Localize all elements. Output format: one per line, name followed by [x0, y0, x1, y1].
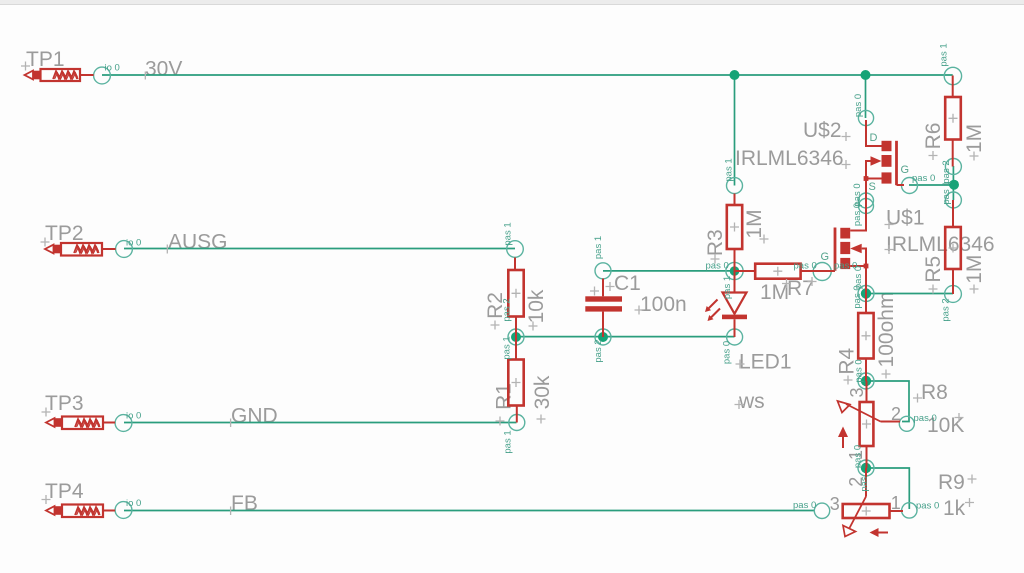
- pin text pas0 R9 pin3: [793, 500, 816, 511]
- pin 2 of R8: [891, 404, 901, 424]
- svg-text:3: 3: [847, 387, 867, 397]
- pin circle U$2 drain: [858, 110, 873, 125]
- pin text pas0 U$2 source rotated: [852, 183, 863, 206]
- junction U$2 gate / R6 / R5: [949, 180, 959, 190]
- origin cross R5 name: [929, 285, 938, 294]
- svg-text:30k: 30k: [531, 375, 554, 409]
- label R6 rotated: [922, 123, 945, 150]
- origin cross TP2: [41, 238, 50, 247]
- value 100n: [640, 293, 687, 316]
- pin circle U$1 source: [858, 286, 874, 302]
- pin label D U$2: [870, 132, 878, 144]
- value IRLML6346 (U$1): [886, 233, 995, 256]
- svg-text:U$1: U$1: [886, 207, 925, 230]
- origin cross C1 value: [635, 306, 644, 315]
- svg-text:AUSG: AUSG: [168, 231, 228, 254]
- svg-text:U$2: U$2: [803, 119, 842, 142]
- svg-text:io 0: io 0: [126, 411, 141, 422]
- pin text pas0 R8 pin2: [914, 413, 937, 424]
- pin circle TP1: [94, 67, 111, 84]
- origin cross LED1 name: [736, 360, 745, 369]
- pin text pas0 U$2 gate: [912, 173, 935, 184]
- origin cross C1: [590, 287, 599, 296]
- origin cross R3 body: [730, 223, 739, 232]
- wire net GND horizontal: [124, 422, 517, 424]
- pin text pas1 R2 top rotated: [503, 222, 514, 245]
- pin circle C1 pin2 bottom: [595, 329, 611, 345]
- resistor R6 1M: [945, 76, 961, 167]
- resistor R7 1M horizontal: [735, 264, 836, 279]
- origin tick AUSG: [166, 245, 168, 254]
- wire node R3/R7/LED/C1 horizontal: [603, 270, 735, 272]
- value 100ohm rotated: [875, 292, 898, 368]
- svg-text:ws: ws: [738, 390, 765, 413]
- svg-text:GND: GND: [231, 405, 278, 428]
- svg-text:pas 0: pas 0: [793, 500, 816, 511]
- wire net FB horizontal: [124, 510, 815, 512]
- pin text pas0 R4 bottom rotated: [854, 359, 865, 382]
- resistor R4 100ohm: [858, 294, 873, 382]
- svg-text:D: D: [870, 132, 878, 144]
- pin circle R3 pin1 top: [727, 178, 743, 194]
- pin text pas1 R5 top rotated: [941, 181, 952, 204]
- origin cross R9 body: [862, 507, 871, 516]
- svg-text:R8: R8: [921, 381, 948, 404]
- label LED1: [739, 351, 792, 374]
- svg-text:TP3: TP3: [45, 392, 84, 415]
- origin cross 1K value: [965, 498, 974, 507]
- svg-text:pas 1: pas 1: [503, 222, 514, 245]
- pin text pas1 LED anode rotated: [722, 276, 733, 299]
- pin circle TP4: [115, 502, 132, 519]
- svg-text:LED1: LED1: [739, 351, 792, 374]
- origin cross R1 body: [512, 378, 521, 387]
- origin cross C1 name: [606, 282, 615, 291]
- pin text pas2 C1 bottom rotated: [593, 339, 604, 362]
- svg-text:S: S: [869, 181, 876, 193]
- label R2 rotated: [484, 292, 507, 319]
- value 1M (R6) rotated: [963, 124, 986, 153]
- junction U$1 source / R4 / R5: [861, 288, 871, 298]
- pin text pas1 R3 top rotated: [724, 158, 735, 181]
- svg-text:pas 1: pas 1: [941, 181, 952, 204]
- wire U$1 source to R5 bottom: [866, 293, 953, 295]
- svg-text:1: 1: [891, 493, 901, 513]
- svg-text:pas 1: pas 1: [939, 43, 950, 66]
- svg-text:3: 3: [830, 494, 840, 514]
- transistor U$1 IRLML6346: [835, 228, 868, 294]
- svg-text:1M: 1M: [760, 281, 789, 304]
- svg-text:pas 0: pas 0: [914, 413, 937, 424]
- svg-text:1M: 1M: [743, 209, 766, 238]
- net label FB: [231, 492, 258, 515]
- svg-text:pas 2: pas 2: [941, 298, 952, 321]
- svg-text:pas 1: pas 1: [593, 236, 604, 259]
- wire 30V down to R3: [734, 75, 736, 186]
- pin circle R9 pin1: [902, 503, 917, 518]
- value 10k rotated: [525, 289, 548, 323]
- pin text io0 TP3: [126, 411, 141, 422]
- svg-text:10k: 10k: [525, 289, 548, 323]
- pin text pas1 R1 top rotated: [502, 336, 513, 359]
- origin cross R6 body: [949, 114, 958, 123]
- origin cross R3 name: [711, 255, 720, 264]
- origin tick GND: [230, 419, 232, 428]
- pin text pas0 node A: [706, 261, 729, 272]
- origin cross R2 name: [491, 321, 500, 330]
- origin cross U$1 value: [885, 245, 894, 254]
- pin circle R1 pin2 bottom: [509, 415, 525, 431]
- wire 30V down to U$2 drain: [865, 75, 867, 118]
- value IRLML6346 (U$2): [735, 147, 844, 170]
- label C1: [614, 272, 641, 295]
- label R3 rotated: [704, 229, 727, 256]
- svg-text:100n: 100n: [640, 293, 687, 316]
- net label GND: [231, 405, 278, 428]
- svg-text:IRLML6346: IRLML6346: [886, 233, 995, 256]
- svg-text:pas 1: pas 1: [722, 276, 733, 299]
- pin text pas1 C1 top rotated: [593, 236, 604, 259]
- pin label G U$2: [901, 164, 910, 176]
- svg-text:TP4: TP4: [45, 480, 84, 503]
- svg-text:R6: R6: [922, 123, 945, 150]
- transistor U$2 IRLML6346: [850, 120, 904, 231]
- svg-text:pas 1: pas 1: [503, 430, 514, 453]
- svg-text:30V: 30V: [145, 58, 182, 81]
- value 30k rotated: [531, 375, 554, 409]
- svg-text:pas 0: pas 0: [916, 500, 939, 511]
- svg-text:pas 0: pas 0: [852, 203, 863, 226]
- pin 3 of R9: [830, 494, 840, 514]
- pin circle R2 pin1 top: [507, 241, 524, 258]
- origin cross R1 name: [496, 417, 505, 426]
- svg-text:C1: C1: [614, 272, 641, 295]
- value 1M (R5) rotated: [963, 255, 986, 284]
- origin cross R4 value: [882, 370, 891, 379]
- pin circle node A: [726, 262, 743, 279]
- pin circle R8 pin1 / R9 pin2: [858, 460, 874, 476]
- junction 30V/R3: [730, 70, 740, 80]
- svg-text:1k: 1k: [943, 497, 966, 520]
- origin cross U$2 name: [842, 132, 851, 141]
- origin cross R2 body: [512, 289, 521, 298]
- svg-text:pas 2: pas 2: [502, 298, 513, 321]
- svg-text:pas 0: pas 0: [853, 94, 864, 117]
- junction R4 / R8 pin 3: [861, 376, 871, 386]
- wire node R1/R2/C1/LED horizontal: [516, 336, 735, 338]
- label R9: [938, 471, 965, 494]
- origin cross TP3: [42, 408, 51, 417]
- LED1 emission arrows: [705, 300, 720, 322]
- value ws: [738, 390, 765, 413]
- svg-text:pas 1: pas 1: [502, 336, 513, 359]
- resistor R1 30k: [508, 337, 523, 423]
- pin text pas0 R4 top rotated: [852, 285, 863, 308]
- svg-text:pas 0: pas 0: [853, 445, 864, 468]
- svg-text:G: G: [821, 251, 830, 263]
- resistor R2 10k: [508, 258, 523, 338]
- wire R4/R8 node to R8 wiper pin 2: [866, 381, 909, 422]
- svg-text:G: G: [901, 164, 910, 176]
- wire net AUSG horizontal: [124, 248, 515, 250]
- svg-text:TP2: TP2: [45, 222, 84, 245]
- value 10K: [927, 414, 964, 437]
- svg-text:1M: 1M: [963, 255, 986, 284]
- value 1M (R7): [760, 281, 789, 304]
- pin 1 of R9: [891, 493, 901, 513]
- label TP1: [26, 48, 65, 71]
- pin 1 of R8 rotated: [846, 450, 866, 460]
- capacitor C1 100n: [585, 279, 622, 338]
- svg-text:pas 0: pas 0: [706, 261, 729, 272]
- pin text io0 TP2: [126, 238, 141, 249]
- LED LED1 ws: [722, 271, 747, 337]
- potentiometer R8 10K: [838, 381, 901, 468]
- potentiometer R9 1K: [843, 468, 903, 537]
- wire R8 bottom to R9 pin 1: [866, 468, 909, 509]
- pin text pas0 U$1 drain rotated: [852, 203, 863, 226]
- pin circle R9 pin3: [814, 503, 829, 518]
- svg-text:R5: R5: [922, 256, 945, 283]
- pin circle R2/R1 junction: [508, 329, 524, 345]
- label U$1: [886, 207, 925, 230]
- junction node A (R3/R7/LED/C1): [730, 266, 740, 276]
- pin text pas2 R2 bottom rotated: [502, 298, 513, 321]
- svg-text:pas 0: pas 0: [912, 173, 935, 184]
- pin text io0 TP4: [126, 498, 141, 509]
- pin text pas2 R9 pin2 rotated: [859, 476, 870, 492]
- pin circle R8 pin2 wiper: [899, 416, 914, 431]
- pin circle R5 pin2 bottom: [945, 286, 962, 303]
- svg-text:pas: pas: [859, 476, 870, 492]
- pin circle U$1 gate / R7 pin2: [813, 263, 831, 281]
- pin label S U$2: [869, 181, 876, 193]
- wire net 30V horizontal rail: [102, 74, 953, 76]
- junction R8 pin 1 / R9 pin 2: [861, 463, 871, 473]
- origin cross R7 name: [808, 277, 817, 286]
- pin 2 of R9 rotated: [846, 477, 866, 487]
- origin cross U$2 value: [842, 160, 851, 169]
- origin cross 10K value: [955, 413, 964, 422]
- label R1 rotated: [493, 383, 516, 410]
- svg-text:io 0: io 0: [105, 63, 120, 74]
- origin cross ws value: [735, 400, 744, 409]
- label R7: [787, 277, 814, 300]
- test point TP1: [25, 69, 94, 81]
- pin text pas2 R6 bottom rotated: [941, 160, 952, 183]
- origin cross TP4: [42, 495, 51, 504]
- pin circle C1 pin1 top: [595, 263, 611, 279]
- origin cross R4 name: [844, 376, 853, 385]
- svg-text:1M: 1M: [963, 124, 986, 153]
- svg-text:pas 0: pas 0: [794, 260, 817, 271]
- value 1M (R3) rotated: [743, 209, 766, 238]
- pin text pas U$1 gate right: [834, 260, 857, 271]
- svg-text:R3: R3: [704, 229, 727, 256]
- origin cross R5 value: [970, 285, 979, 294]
- origin cross R4 body: [862, 331, 871, 340]
- resistor R3 1M: [727, 194, 742, 272]
- label R5 rotated: [922, 256, 945, 283]
- label R8: [921, 381, 948, 404]
- origin cross R7 value: [782, 279, 791, 288]
- pin circle U$2 source: [859, 193, 874, 208]
- test point TP4: [46, 505, 115, 518]
- pin circle R4 bottom / R8 pin3: [858, 373, 874, 389]
- svg-text:pas 0: pas 0: [722, 341, 733, 364]
- origin cross 10k value: [529, 322, 538, 331]
- pin text pas1 R1 bottom rotated: [503, 430, 514, 453]
- origin cross R3 value: [760, 235, 769, 244]
- resistor R5 1M: [945, 200, 961, 294]
- svg-text:R7: R7: [787, 277, 814, 300]
- pin circle TP3: [115, 415, 132, 432]
- label R4 rotated: [836, 347, 859, 374]
- label TP4: [45, 480, 84, 503]
- pin 3 of R8 rotated: [847, 387, 867, 397]
- label TP3: [45, 392, 84, 415]
- pin text pas0 U$1 source rotated: [853, 266, 864, 289]
- origin cross R6 value: [970, 152, 979, 161]
- origin tick 30V: [144, 72, 146, 80]
- origin cross U$1 name: [885, 220, 894, 229]
- pin text pas0 U$2 drain rotated: [853, 94, 864, 117]
- label TP2: [45, 222, 84, 245]
- origin cross TP1: [21, 62, 30, 71]
- svg-text:pas 0: pas 0: [854, 359, 865, 382]
- pin text pas0 R9 pin1: [916, 500, 939, 511]
- svg-text:2: 2: [891, 404, 901, 424]
- origin cross R6 name: [929, 151, 938, 160]
- origin cross R8 body: [862, 420, 871, 429]
- junction C1 bottom: [598, 332, 608, 342]
- origin cross 30k value: [537, 415, 546, 424]
- wire R6 bottom to R5 top: [952, 166, 954, 200]
- svg-text:pas 2: pas 2: [593, 339, 604, 362]
- svg-text:io 0: io 0: [126, 238, 141, 249]
- window top bar: [0, 0, 1024, 5]
- origin cross R8 name: [913, 394, 922, 403]
- pin text pas2 R5 bottom rotated: [941, 298, 952, 321]
- pin circle LED1 cathode: [727, 329, 743, 345]
- label U$2: [803, 119, 842, 142]
- origin cross R9 name: [968, 475, 977, 484]
- svg-text:R9: R9: [938, 471, 965, 494]
- origin cross R5 body: [949, 244, 958, 253]
- svg-text:pas 2: pas 2: [941, 160, 952, 183]
- pin text pas0 R8 bottom rotated: [853, 445, 864, 468]
- pin text pas1 R6 top rotated: [939, 43, 950, 66]
- pin circle R5 pin1 top: [945, 192, 961, 208]
- svg-text:io 0: io 0: [126, 498, 141, 509]
- pin text pas0 U$1 gate left: [794, 260, 817, 271]
- wire U$2 gate to R6/R5 node: [909, 184, 954, 186]
- svg-text:TP1: TP1: [26, 48, 65, 71]
- test point TP3: [46, 417, 115, 430]
- pin circle R6 pin1 top: [944, 67, 961, 84]
- net label 30V: [145, 58, 182, 81]
- value 1K: [943, 497, 966, 520]
- net label AUSG: [168, 231, 228, 254]
- junction 30V/U$2: [861, 70, 871, 80]
- svg-text:100ohm: 100ohm: [875, 292, 898, 368]
- junction R2/R1: [511, 332, 521, 342]
- pin circle U$2 gate: [902, 178, 918, 194]
- pin text io0 TP1: [105, 63, 120, 74]
- svg-text:pas 1: pas 1: [724, 158, 735, 181]
- svg-text:FB: FB: [231, 492, 258, 515]
- test point TP2: [45, 243, 116, 256]
- pin text pas0 LED cathode rotated: [722, 341, 733, 364]
- pin circle U$1 drain: [859, 199, 874, 214]
- origin tick FB: [230, 507, 232, 516]
- origin cross R7 body: [773, 267, 782, 276]
- pin label G U$1: [821, 251, 830, 263]
- pin circle R6 pin2 bottom: [945, 159, 961, 175]
- svg-text:pas 0: pas 0: [852, 285, 863, 308]
- pin circle TP2: [116, 241, 133, 258]
- svg-text:IRLML6346: IRLML6346: [735, 147, 844, 170]
